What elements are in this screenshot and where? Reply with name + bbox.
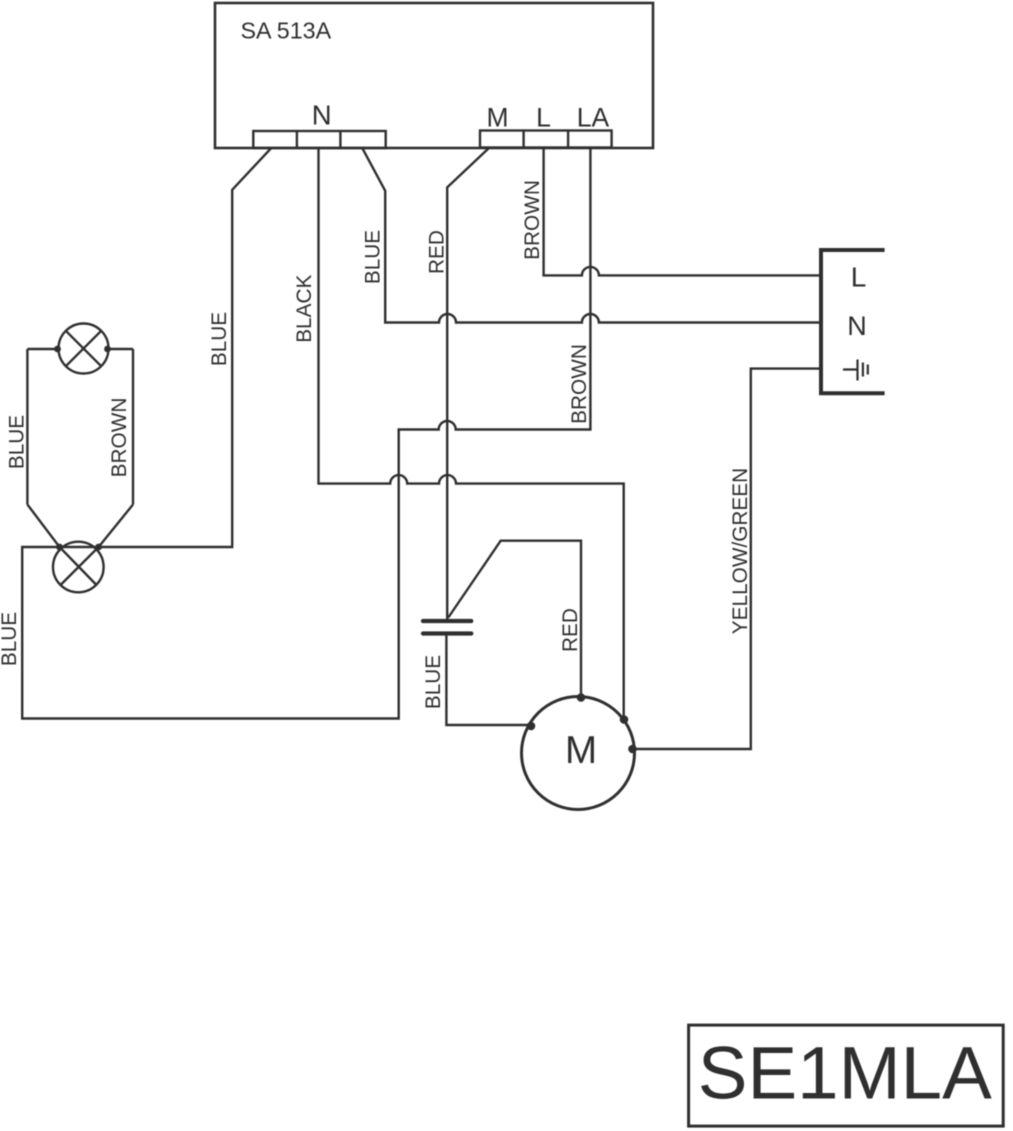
svg-text:BROWN: BROWN xyxy=(568,344,591,424)
svg-text:YELLOW/GREEN: YELLOW/GREEN xyxy=(729,468,752,634)
svg-text:L: L xyxy=(851,262,867,293)
svg-text:BLUE: BLUE xyxy=(0,612,21,666)
svg-text:SA 513A: SA 513A xyxy=(241,18,332,44)
svg-text:BLACK: BLACK xyxy=(293,274,316,342)
svg-text:M: M xyxy=(486,103,508,133)
svg-text:BLUE: BLUE xyxy=(361,230,384,284)
svg-text:LA: LA xyxy=(577,103,610,133)
svg-text:BLUE: BLUE xyxy=(422,655,445,709)
svg-text:N: N xyxy=(847,311,867,341)
svg-text:BROWN: BROWN xyxy=(108,398,131,478)
svg-text:BROWN: BROWN xyxy=(521,180,544,260)
svg-text:BLUE: BLUE xyxy=(6,415,29,469)
svg-text:L: L xyxy=(536,103,551,133)
svg-text:N: N xyxy=(312,100,332,131)
svg-text:RED: RED xyxy=(559,608,582,652)
svg-text:BLUE: BLUE xyxy=(208,312,231,366)
svg-text:M: M xyxy=(565,729,597,772)
svg-text:RED: RED xyxy=(425,230,448,274)
svg-text:SE1MLA: SE1MLA xyxy=(698,1031,992,1114)
